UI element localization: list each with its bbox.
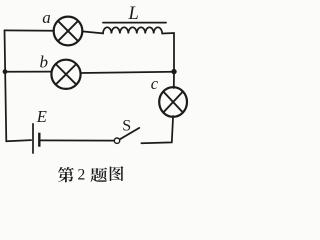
wire lamp c down to bottom-right corner xyxy=(141,116,173,143)
switch S blade xyxy=(120,128,140,139)
wire lamp a to inductor xyxy=(82,31,103,33)
battery E short plate xyxy=(38,133,40,147)
svg-text:S: S xyxy=(122,118,131,135)
svg-text:b: b xyxy=(40,53,49,72)
wire top-left to lamp a xyxy=(5,29,54,31)
lamp c xyxy=(159,87,187,117)
caption char 图 xyxy=(110,166,124,181)
wire coil to top-right corner xyxy=(162,33,174,72)
wire battery left xyxy=(6,140,31,141)
caption char 题 xyxy=(91,168,108,182)
svg-text:E: E xyxy=(36,107,47,126)
battery E long plate xyxy=(32,123,34,154)
inductor L coil xyxy=(103,27,162,33)
junction node left xyxy=(3,69,8,74)
junction node right xyxy=(171,69,176,74)
svg-text:a: a xyxy=(42,8,51,27)
svg-text:2: 2 xyxy=(78,167,86,184)
wire battery to switch xyxy=(40,139,113,141)
switch S pivot xyxy=(114,138,119,143)
wire left vertical to lamp b xyxy=(5,71,52,73)
wire lamp b right to junction xyxy=(81,72,174,73)
lamp a xyxy=(54,17,83,46)
svg-text:L: L xyxy=(128,4,139,24)
caption char 第 xyxy=(58,167,74,182)
svg-text:c: c xyxy=(151,74,159,93)
inductor L core bar xyxy=(103,22,166,24)
wire junction down to lamp c xyxy=(173,72,175,88)
lamp b xyxy=(51,60,80,89)
wire left vertical xyxy=(5,30,7,141)
